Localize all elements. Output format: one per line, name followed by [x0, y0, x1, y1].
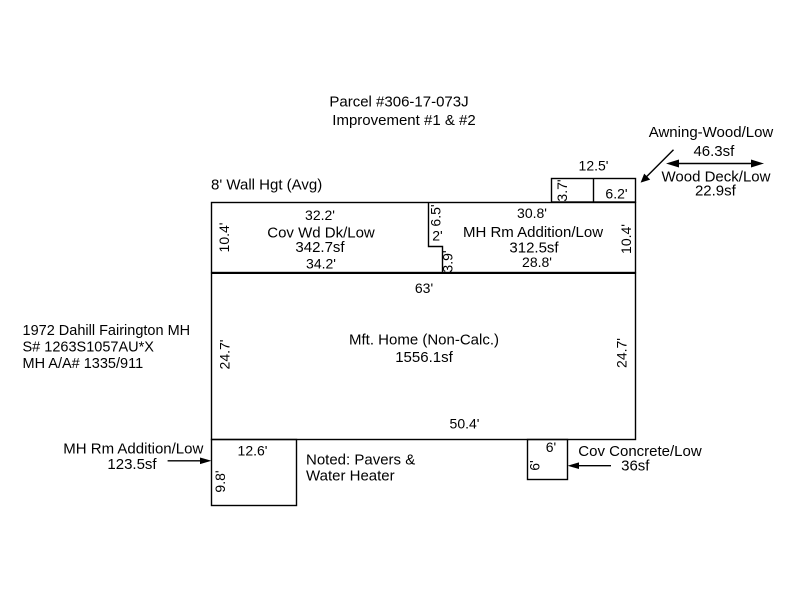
svg-text:30.8': 30.8'	[517, 205, 547, 221]
svg-text:S# 1263S1057AU*X: S# 1263S1057AU*X	[23, 340, 155, 356]
svg-text:34.2': 34.2'	[306, 256, 336, 272]
step divider between Cov Wd Dk and MH Rm Addition	[429, 203, 443, 273]
svg-text:1972 Dahill Fairington MH: 1972 Dahill Fairington MH	[23, 323, 191, 339]
svg-text:28.8': 28.8'	[522, 254, 552, 270]
svg-text:10.4': 10.4'	[216, 223, 232, 253]
svg-text:36sf: 36sf	[621, 458, 650, 475]
svg-text:3.7': 3.7'	[554, 179, 570, 201]
svg-text:6': 6'	[527, 460, 543, 470]
svg-text:Mft. Home (Non-Calc.): Mft. Home (Non-Calc.)	[349, 332, 499, 349]
svg-text:9.8': 9.8'	[212, 470, 228, 492]
svg-text:Noted: Pavers &: Noted: Pavers &	[306, 452, 415, 469]
diagonal arrow to awning box	[641, 150, 674, 183]
svg-text:12.6': 12.6'	[238, 443, 268, 459]
arrow to bottom-left addition box	[168, 458, 212, 465]
svg-text:24.7': 24.7'	[217, 340, 233, 370]
svg-text:6.5': 6.5'	[428, 204, 444, 226]
awning/deck small box outline	[552, 179, 636, 203]
double-headed arrow	[666, 160, 764, 168]
svg-text:24.7': 24.7'	[614, 338, 630, 368]
awning/deck box divider	[593, 179, 595, 203]
svg-text:32.2': 32.2'	[305, 207, 335, 223]
bottom-left addition box	[212, 440, 297, 506]
svg-text:6.2': 6.2'	[605, 186, 627, 202]
svg-text:Water Heater: Water Heater	[306, 468, 395, 485]
svg-text:22.9sf: 22.9sf	[695, 183, 737, 200]
svg-text:MH A/A# 1335/911: MH A/A# 1335/911	[23, 356, 144, 372]
svg-text:8' Wall Hgt (Avg): 8' Wall Hgt (Avg)	[211, 177, 322, 194]
svg-text:2': 2'	[432, 228, 442, 244]
svg-text:50.4': 50.4'	[450, 416, 480, 432]
bottom-right concrete box	[528, 440, 568, 480]
svg-text:10.4': 10.4'	[618, 224, 634, 254]
svg-text:Awning-Wood/Low: Awning-Wood/Low	[649, 124, 774, 141]
svg-text:Parcel #306-17-073J: Parcel #306-17-073J	[329, 94, 468, 111]
svg-text:1556.1sf: 1556.1sf	[395, 349, 453, 366]
svg-text:6': 6'	[546, 439, 556, 455]
svg-text:3.9': 3.9'	[440, 250, 456, 272]
svg-text:Improvement #1 & #2: Improvement #1 & #2	[332, 112, 475, 129]
arrow to bottom-right concrete box	[568, 462, 612, 469]
top strip outline (Cov Wd Dk + MH Rm Addition)	[212, 203, 636, 273]
svg-text:MH Rm Addition/Low: MH Rm Addition/Low	[463, 224, 603, 241]
svg-text:342.7sf: 342.7sf	[295, 239, 345, 256]
main home rectangle	[212, 273, 636, 439]
svg-text:63': 63'	[415, 280, 433, 296]
svg-text:46.3sf: 46.3sf	[693, 143, 735, 160]
svg-text:12.5': 12.5'	[579, 158, 609, 174]
svg-text:123.5sf: 123.5sf	[107, 456, 157, 473]
